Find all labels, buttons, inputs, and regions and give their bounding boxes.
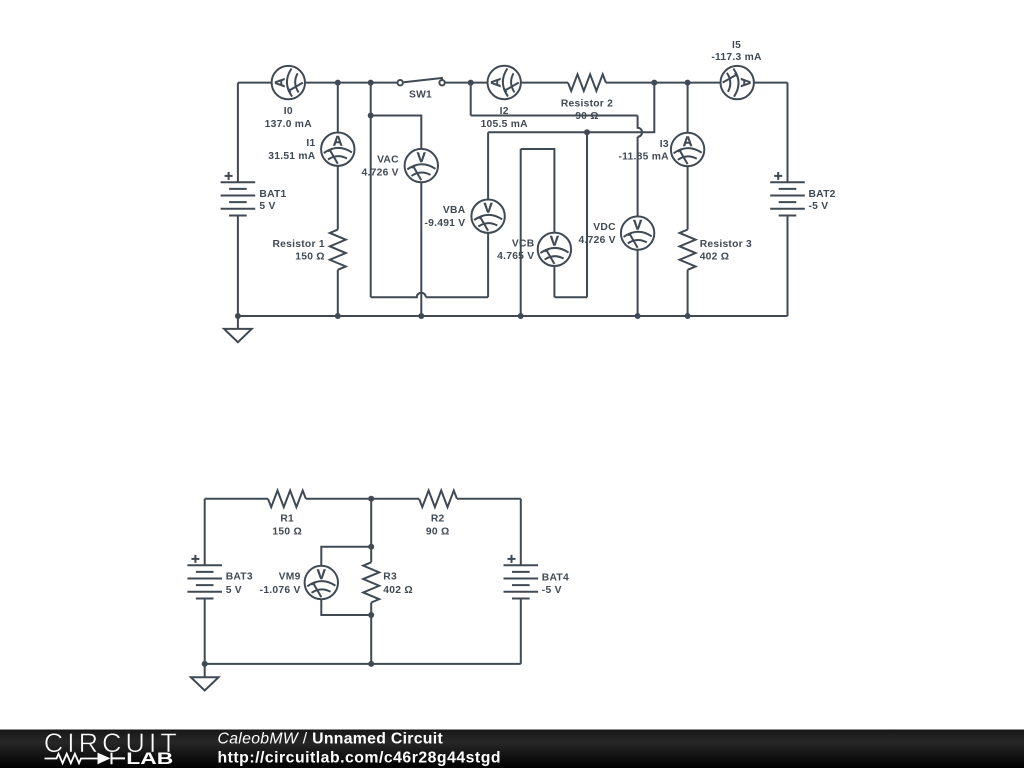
- junction node bottom rail middle: [368, 661, 374, 667]
- voltmeter VBA: [471, 200, 504, 233]
- resistor Resistor 1: [330, 230, 346, 270]
- wire BAT2 top lead: [787, 83, 789, 183]
- svg-text:137.0 mA: 137.0 mA: [265, 119, 313, 130]
- svg-text:R3: R3: [383, 572, 397, 583]
- svg-text:-1.076 V: -1.076 V: [260, 585, 301, 596]
- wire I0 to SW1 left: [306, 82, 397, 84]
- junction node A top rail x=370.7: [368, 80, 374, 86]
- wire node B stub down from I2 junction: [470, 83, 472, 116]
- svg-text:4.726 V: 4.726 V: [362, 167, 399, 178]
- wire BAT3 bottom lead: [204, 598, 206, 663]
- wire BAT1 bottom lead: [237, 215, 239, 316]
- wire BAT4 top lead: [520, 499, 522, 565]
- svg-text:I3: I3: [660, 139, 669, 150]
- svg-text:Resistor 3: Resistor 3: [700, 239, 752, 250]
- svg-text:BAT3: BAT3: [226, 572, 253, 583]
- junction node bottom rail left: [202, 661, 208, 667]
- svg-text:BAT1: BAT1: [259, 189, 286, 200]
- wire VAC bottom to bottom rail: [420, 183, 422, 316]
- wire R3 bottom lead: [370, 603, 372, 664]
- svg-text:I2: I2: [500, 106, 509, 117]
- footer bar: [0, 730, 1024, 768]
- wire bottom circuit top rail right: [457, 498, 521, 500]
- svg-text:VCB: VCB: [512, 238, 535, 249]
- svg-text:150 Ω: 150 Ω: [295, 252, 325, 263]
- svg-text:150 Ω: 150 Ω: [272, 527, 302, 538]
- wire bottom rail of top circuit: [238, 315, 788, 317]
- junction node top rail x=654.3: [651, 80, 657, 86]
- resistor R3: [363, 562, 379, 602]
- wire bottom circuit top rail left: [205, 498, 268, 500]
- svg-text:http://circuitlab.com/c46r28g4: http://circuitlab.com/c46r28g44stgd: [218, 749, 502, 766]
- svg-text:VDC: VDC: [593, 222, 616, 233]
- switch SW1: [398, 78, 445, 85]
- wire riser to VBA-I2 net: [586, 132, 588, 297]
- wire I5 to top-right corner: [755, 82, 788, 84]
- wire VCB bottom to riser: [554, 296, 587, 298]
- wire BAT1 top lead: [237, 83, 239, 183]
- wire VCB bottom lead: [553, 267, 555, 298]
- junction node bottom circuit top rail: [368, 496, 374, 502]
- wire VBA top lead: [487, 132, 489, 199]
- wire top-left from BAT1 to I0: [238, 82, 271, 84]
- svg-text:-5 V: -5 V: [542, 585, 562, 596]
- wire I3 top lead: [687, 83, 689, 133]
- ammeter I2: [488, 66, 521, 99]
- junction node A stub: [368, 113, 374, 119]
- junction node top rail x=687.6: [685, 80, 691, 86]
- voltmeter VM9: [305, 566, 338, 599]
- wire VM9 top bracket: [321, 547, 371, 566]
- battery BAT1: [221, 172, 256, 216]
- wire I2 to Resistor 2: [522, 82, 569, 84]
- wire across to VDC column: [471, 115, 638, 117]
- svg-text:31.51 mA: 31.51 mA: [268, 151, 316, 162]
- wire I1 to Resistor 1: [337, 167, 339, 230]
- svg-text:4.726 V: 4.726 V: [579, 235, 616, 246]
- svg-text:105.5 mA: 105.5 mA: [481, 119, 529, 130]
- battery BAT3: [187, 555, 222, 599]
- svg-text:Resistor 2: Resistor 2: [561, 99, 613, 110]
- wire BAT3 top lead: [204, 499, 206, 565]
- voltmeter VDC: [621, 216, 654, 249]
- wire VBA top to node B riser: [488, 83, 654, 133]
- voltmeter VAC: [405, 149, 438, 182]
- wire bottom circuit bottom rail: [205, 663, 521, 665]
- svg-text:90 Ω: 90 Ω: [575, 111, 599, 122]
- wire VBA bottom lead: [487, 234, 489, 298]
- junction node VM9 top: [368, 544, 374, 550]
- svg-text:LAB: LAB: [126, 750, 173, 768]
- svg-text:402 Ω: 402 Ω: [383, 585, 413, 596]
- svg-text:R1: R1: [280, 513, 294, 524]
- voltmeter VCB: [538, 233, 571, 266]
- ammeter I1: [321, 133, 354, 166]
- junction node bottom rail x=421.3: [418, 313, 424, 319]
- wire VM9 bottom bracket: [321, 600, 371, 615]
- wire I1 top lead: [337, 83, 339, 132]
- wire BAT4 bottom lead: [520, 598, 522, 663]
- wire R3 top lead: [370, 499, 372, 563]
- svg-text:VAC: VAC: [377, 155, 399, 166]
- wire node A to VAC top: [371, 116, 422, 149]
- wire SW1 right to I2: [446, 82, 487, 84]
- svg-text:-5 V: -5 V: [809, 201, 829, 212]
- svg-text:90 Ω: 90 Ω: [426, 527, 450, 538]
- svg-text:SW1: SW1: [409, 89, 432, 100]
- svg-text:R2: R2: [431, 514, 445, 525]
- junction node VM9 bottom: [368, 612, 374, 618]
- battery BAT4: [504, 555, 539, 599]
- wire Resistor 2 to I5: [606, 82, 720, 84]
- junction node bottom rail x=687.6: [685, 313, 691, 319]
- svg-text:I1: I1: [306, 138, 315, 149]
- svg-text:5 V: 5 V: [259, 201, 275, 212]
- logo diode: [98, 753, 111, 765]
- logo resistor squiggle: [45, 754, 98, 763]
- resistor R1: [268, 491, 306, 508]
- battery BAT2: [770, 172, 805, 216]
- wire VDC bottom lead: [637, 250, 639, 316]
- svg-text:-9.491 V: -9.491 V: [424, 218, 465, 229]
- wire horizontal to VBA bottom with hop over VAC wire: [371, 293, 488, 298]
- svg-text:5 V: 5 V: [226, 585, 242, 596]
- resistor Resistor 3: [680, 230, 696, 270]
- wire Resistor 3 bottom lead: [687, 270, 689, 316]
- wire long vertical from node A: [370, 116, 372, 298]
- resistor R2: [419, 491, 457, 508]
- wire BAT2 bottom lead: [787, 215, 789, 316]
- ammeter I3: [671, 133, 704, 166]
- ground top circuit: [224, 316, 252, 343]
- svg-text:I0: I0: [284, 106, 293, 117]
- svg-text:402 Ω: 402 Ω: [700, 252, 730, 263]
- wire Resistor 1 bottom lead: [337, 270, 339, 316]
- junction node bottom rail x=237.9: [235, 313, 241, 319]
- svg-text:-117.3 mA: -117.3 mA: [711, 52, 762, 63]
- wire VCB left riser from bottom rail: [520, 149, 522, 316]
- junction node bottom rail x=637.6: [635, 313, 641, 319]
- ammeter I0: [272, 66, 305, 99]
- svg-text:BAT4: BAT4: [542, 572, 569, 583]
- svg-text:-11.85 mA: -11.85 mA: [618, 152, 669, 163]
- svg-text:VM9: VM9: [279, 572, 301, 583]
- resistor Resistor 2: [568, 74, 606, 91]
- junction node top rail x=337.8: [335, 80, 341, 86]
- wire bottom circuit top rail middle: [306, 498, 419, 500]
- junction node VBA net riser: [584, 129, 590, 135]
- ground bottom circuit: [191, 664, 219, 691]
- svg-text:VBA: VBA: [443, 205, 466, 216]
- svg-text:4.765 V: 4.765 V: [497, 251, 534, 262]
- junction node B top rail x=470.7: [468, 80, 474, 86]
- junction node bottom rail x=337.8: [335, 313, 341, 319]
- wire VCB top bracket: [521, 149, 555, 232]
- wire VDC top lead with hop over VBA wire: [638, 116, 643, 216]
- wire I3 to Resistor 3: [687, 167, 689, 230]
- svg-text:CaleobMW / Unnamed Circuit: CaleobMW / Unnamed Circuit: [218, 731, 444, 748]
- ammeter I5: [721, 66, 754, 99]
- svg-text:Resistor 1: Resistor 1: [273, 239, 325, 250]
- wire node A stub down: [370, 83, 372, 116]
- svg-text:BAT2: BAT2: [809, 189, 836, 200]
- junction node bottom rail x=520.7: [518, 313, 524, 319]
- svg-text:I5: I5: [732, 40, 741, 51]
